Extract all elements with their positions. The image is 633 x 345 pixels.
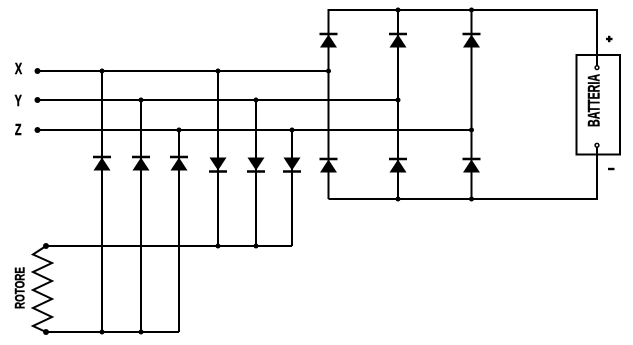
node Y terminal dot xyxy=(35,97,41,103)
junction Y-column2 xyxy=(139,98,144,103)
junction column1-rotor-bottom xyxy=(100,330,105,335)
junction column4-rotor-top xyxy=(216,244,221,249)
svg-text:X: X xyxy=(15,60,22,78)
battery BT1 box xyxy=(577,55,621,155)
wire column 6 vertical xyxy=(291,130,293,246)
diode D10 bridge lower columnA xyxy=(320,159,338,173)
wire bridge column B vertical xyxy=(397,10,399,199)
junction Y-column5 xyxy=(254,98,259,103)
node X terminal dot xyxy=(35,68,41,74)
junction bottomrail-columnB xyxy=(396,197,401,202)
junction Z-bridge-columnC xyxy=(469,128,474,133)
diode D9 bridge upper columnC xyxy=(463,34,481,48)
wire column 4 vertical xyxy=(217,71,219,246)
label BATTERIA xyxy=(585,74,604,127)
diode D3 excitation up xyxy=(170,157,188,171)
junction X-column4 xyxy=(216,69,221,74)
junction toprail-columnC xyxy=(469,8,474,13)
wire phase X horizontal xyxy=(37,70,329,72)
svg-text:Y: Y xyxy=(15,92,22,110)
node rotor top terminal dot xyxy=(43,243,49,249)
junction column5-rotor-top xyxy=(254,244,259,249)
label ROTORE xyxy=(12,267,28,309)
node Z terminal dot xyxy=(35,127,41,133)
diode D5 excitation down xyxy=(247,158,265,172)
wire bridge top rail xyxy=(329,10,598,199)
node Z label xyxy=(15,121,22,139)
diode D6 excitation down xyxy=(283,158,301,172)
wire phase Z horizontal xyxy=(37,129,472,131)
wire column 1 vertical xyxy=(101,71,103,332)
diode D2 excitation up xyxy=(132,157,150,171)
wire phase Y horizontal xyxy=(37,99,398,101)
junction Z-column3 xyxy=(177,128,182,133)
junction X-column1 xyxy=(100,69,105,74)
diode D11 bridge lower columnB xyxy=(389,159,407,173)
wire rotor bottom line xyxy=(46,331,179,333)
battery minus sign xyxy=(608,168,615,170)
svg-text:Z: Z xyxy=(15,121,22,139)
node rotor bottom terminal dot xyxy=(43,329,49,335)
battery - terminal circle xyxy=(595,143,599,147)
wire bridge bottom rail xyxy=(329,148,598,200)
svg-text:ROTORE: ROTORE xyxy=(12,267,28,309)
diode D8 bridge upper columnB xyxy=(389,34,407,48)
wire column 3 vertical xyxy=(178,130,180,332)
junction Y-bridge-columnB xyxy=(396,98,401,103)
junction column2-rotor-bottom xyxy=(139,330,144,335)
wire rotor top line xyxy=(46,245,292,247)
junction X-bridge-columnA xyxy=(326,69,331,74)
junction bottomrail-columnC xyxy=(469,197,474,202)
diode D7 bridge upper columnA xyxy=(320,34,338,48)
wire bridge column C vertical xyxy=(471,10,473,199)
rotor winding L1 zigzag xyxy=(33,246,52,332)
battery + terminal circle xyxy=(595,66,599,70)
svg-text:BATTERIA: BATTERIA xyxy=(585,74,604,127)
battery plus sign xyxy=(606,36,613,42)
node Y label xyxy=(15,92,22,110)
diode D12 bridge lower columnC xyxy=(463,159,481,173)
junction toprail-columnB xyxy=(396,8,401,13)
wire column 2 vertical xyxy=(140,100,142,332)
node X label xyxy=(15,60,22,78)
wire column 5 vertical xyxy=(255,100,257,246)
diode D4 excitation down xyxy=(209,158,227,172)
diode D1 excitation up xyxy=(93,157,111,171)
junction Z-column6 xyxy=(290,128,295,133)
